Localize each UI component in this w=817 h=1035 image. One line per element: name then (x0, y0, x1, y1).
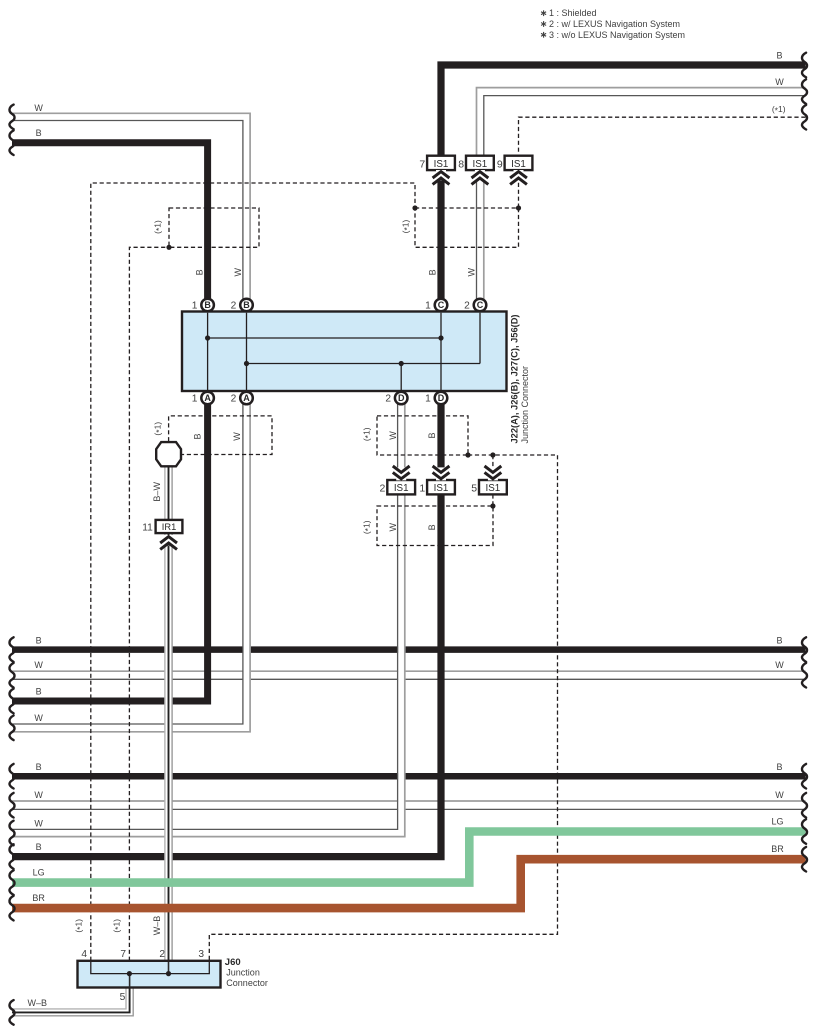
label W top-right (775, 77, 784, 87)
pin 1 A of junction connector (192, 392, 214, 405)
wire B junction pin 1D through IS1 pin 1 to left edge (12, 404, 441, 857)
pin 2 D of junction connector (385, 392, 407, 405)
svg-text:B: B (428, 269, 438, 275)
svg-text:B: B (427, 524, 437, 530)
arrow into IS1 pin 2 (393, 466, 410, 480)
svg-text:2: 2 (231, 301, 237, 312)
label LG left (33, 868, 45, 878)
wire W bus row1 full-width (12, 671, 806, 679)
svg-text:B: B (776, 762, 782, 772)
svg-text:3: 3 (198, 949, 204, 960)
svg-text:B: B (204, 300, 211, 310)
node J60 pin 2 junction (166, 971, 171, 976)
wire W junction pin 2A to left edge (12, 404, 250, 732)
svg-text:W: W (775, 77, 784, 87)
label W wire pin 2C (467, 268, 477, 277)
svg-text:J22(A), J26(B), J27(C), J56(D): J22(A), J26(B), J27(C), J56(D) (510, 315, 520, 444)
svg-text:W: W (467, 268, 477, 277)
label W wire pin 2D (388, 431, 398, 440)
label LG right (771, 816, 783, 826)
svg-text:4: 4 (81, 949, 87, 960)
label B wire pin 1B (194, 269, 204, 275)
label (*1) J60 pin 7 (112, 919, 124, 933)
svg-text:B: B (36, 128, 42, 138)
svg-text:1: 1 (425, 394, 431, 405)
label W-B wire J60 pin 5 (28, 998, 48, 1008)
label B wire pin 1A (193, 433, 203, 439)
wire B top-right to IS1 pin 7 (441, 65, 806, 156)
svg-text:1: 1 (192, 301, 198, 312)
junction connector internal wire pin 2D up (400, 364, 402, 391)
wire W-B shield octagon to IR1 to J60 pin 2 (165, 466, 172, 974)
svg-text:11: 11 (142, 523, 153, 534)
junction connector J22(A) J26(B) J27(C) J56(D) box (182, 312, 507, 392)
wire W top-right to IS1 pin 8 (477, 88, 806, 156)
pin number 2 of J60 (159, 949, 165, 960)
svg-text:Junction: Junction (226, 968, 260, 978)
pin number 7 of J60 (120, 949, 126, 960)
label (*1) octagon box (152, 422, 164, 436)
label W lower-left (34, 818, 43, 828)
svg-text:B: B (36, 842, 42, 852)
junction connector J60 box (78, 961, 221, 988)
pin number 3 of J60 (198, 949, 204, 960)
shield dashed box (*1) right of junction connector (415, 208, 519, 247)
svg-text:D: D (438, 393, 445, 403)
svg-text:B: B (194, 269, 204, 275)
node J60 pin 7 junction (127, 971, 132, 976)
node shield dashed left (412, 205, 417, 210)
svg-text:A: A (243, 393, 250, 403)
label W bus row1 right (775, 660, 784, 670)
svg-text:B: B (193, 433, 203, 439)
label (*1) shield box right (400, 219, 412, 233)
shield dashed box (*1) above IS1 row D (377, 416, 468, 455)
pin 1 B of junction connector (192, 299, 214, 312)
svg-text:Connector: Connector (226, 978, 268, 988)
connector IR1 pin 11 (142, 520, 182, 534)
svg-text:(*1): (*1) (361, 520, 373, 534)
shield dashed box (*1) left of junction connector (169, 208, 259, 247)
svg-text:B–W: B–W (152, 482, 162, 502)
svg-text:W: W (232, 432, 242, 441)
svg-text:IR1: IR1 (162, 522, 176, 532)
label B mid-left (36, 687, 42, 697)
arrow into IS1 pin 7 (433, 170, 450, 184)
label W mid-left (34, 713, 43, 723)
shield dashed line left inner (J60 pin 7 up to node A1) (129, 247, 169, 961)
label BR left (32, 893, 45, 903)
svg-text:7: 7 (120, 949, 126, 960)
label B-W wire IR1 (152, 482, 162, 502)
svg-text:IS1: IS1 (434, 483, 449, 494)
svg-text:3 : w/o LEXUS Navigation Syste: 3 : w/o LEXUS Navigation System (549, 30, 685, 40)
svg-text:B: B (36, 635, 42, 645)
svg-text:(*1): (*1) (74, 919, 86, 933)
arrow into IS1 pin 8 (472, 170, 489, 184)
wire BR right edge to left edge (12, 859, 806, 908)
shield dashed wire IS1 pin 9 down to node (518, 169, 520, 208)
node shield dashed right (516, 205, 521, 210)
label W wire pin 2B (233, 268, 243, 277)
shield dashed line right (node to J60 pin 3) (209, 455, 557, 961)
svg-text:LG: LG (33, 868, 45, 878)
wire W from IS1 pin 8 to junction pin 2C (477, 169, 484, 302)
node shield dashed at box D corner (465, 452, 470, 457)
svg-text:1 : Shielded: 1 : Shielded (549, 8, 597, 18)
node shield dashed lower-left (166, 245, 171, 250)
svg-text:9: 9 (497, 158, 503, 170)
svg-text:IS1: IS1 (486, 483, 501, 494)
label (*1) shield box left (152, 220, 164, 234)
label W bus row2 right (775, 790, 784, 800)
wire B junction pin 1A to left edge (12, 404, 208, 701)
label W bus row1 left (34, 660, 43, 670)
junction connector J60 pin 5 stub (129, 974, 131, 988)
svg-text:W: W (388, 523, 398, 532)
svg-text:(*1): (*1) (152, 422, 164, 436)
svg-text:2: 2 (385, 394, 391, 405)
junction connector internal bus 2 (244, 361, 480, 366)
svg-text:W: W (388, 431, 398, 440)
label B lower-left (36, 842, 42, 852)
svg-text:W: W (233, 268, 243, 277)
svg-text:B: B (776, 635, 782, 645)
pin 2 B of junction connector (231, 299, 253, 312)
pin number 4 of J60 (81, 949, 87, 960)
pin 1 D of junction connector (425, 392, 447, 405)
svg-text:1: 1 (192, 394, 198, 405)
svg-text:2: 2 (380, 483, 386, 495)
svg-text:2: 2 (159, 949, 165, 960)
svg-text:B: B (36, 687, 42, 697)
shield dashed box (*1) around octagon wires (169, 416, 272, 455)
svg-text:8: 8 (458, 158, 464, 170)
connector IS1 pin 9 (497, 156, 533, 171)
label B bus row1 left (36, 635, 42, 645)
shield dashed line left outer (J60 pin 4 up and across top) (91, 183, 415, 961)
node shield dashed at lower box corner (490, 503, 495, 508)
arrow into IS1 pin 5 (485, 466, 502, 480)
arrow into IR1 pin 11 (160, 535, 177, 549)
svg-text:7: 7 (419, 158, 425, 170)
svg-text:(*1): (*1) (772, 104, 786, 116)
connector IS1 pin 5 (471, 480, 507, 495)
svg-text:2: 2 (464, 301, 470, 312)
svg-text:W: W (34, 818, 43, 828)
svg-text:5: 5 (120, 992, 126, 1003)
label (*1) box D upper (361, 427, 373, 441)
svg-text:W–B: W–B (152, 916, 162, 936)
wire LG right edge to left edge (12, 832, 806, 883)
shield dashed branch to IS1 pin 5 (492, 455, 494, 480)
svg-text:2 : w/ LEXUS Navigation System: 2 : w/ LEXUS Navigation System (549, 19, 680, 29)
svg-text:BR: BR (32, 893, 45, 903)
svg-text:IS1: IS1 (473, 159, 488, 170)
node shield dashed branch IS1 5 (490, 452, 495, 457)
label B top-left (36, 128, 42, 138)
svg-text:B: B (36, 762, 42, 772)
arrow into IS1 pin 1 (433, 466, 450, 480)
arrow into IS1 pin 9 (510, 170, 527, 184)
svg-text:1: 1 (419, 483, 425, 495)
pin 2 A of junction connector (231, 392, 253, 405)
label W top-left (34, 103, 43, 113)
label W bus row2 left (34, 790, 43, 800)
svg-text:B: B (243, 300, 250, 310)
junction connector internal wire pin 2B to 2A (246, 313, 248, 391)
svg-text:5: 5 (471, 483, 477, 495)
label B wire pin 1C (428, 269, 438, 275)
connector IS1 pin 7 (419, 156, 455, 171)
pin 2 C of junction connector (464, 299, 486, 312)
wire W bus row2 full-width (12, 801, 806, 809)
wire W junction pin 2D through IS1 pin 2 to left edge (12, 404, 405, 837)
svg-text:W: W (34, 790, 43, 800)
svg-text:W: W (34, 713, 43, 723)
junction connector J60 pin 2 stub (168, 962, 170, 974)
svg-text:BR: BR (771, 844, 784, 854)
svg-text:IS1: IS1 (394, 483, 409, 494)
junction connector J60 internal bus (91, 962, 210, 974)
label W-B wire J60 pin 2 (152, 916, 162, 936)
label B bus row1 right (776, 635, 782, 645)
label W wire pin 2A (232, 432, 242, 441)
wire B bus row2 full-width (12, 773, 806, 780)
svg-text:D: D (398, 393, 405, 403)
shield dashed box (*1) below IS1 row D (377, 506, 493, 546)
svg-text:J60: J60 (225, 957, 241, 968)
svg-text:W: W (775, 790, 784, 800)
svg-text:W: W (34, 660, 43, 670)
label B top-right (776, 50, 782, 60)
junction connector internal bus 1 (205, 335, 444, 340)
pin 1 C of junction connector (425, 299, 447, 312)
svg-text:(*1): (*1) (152, 220, 164, 234)
svg-text:IS1: IS1 (511, 159, 526, 170)
wire B bus row1 full-width (12, 646, 806, 653)
wire W-B left edge to J60 pin 5 (12, 975, 133, 1016)
label (*1) top-right (772, 104, 786, 116)
label W wire below IS1 2 (388, 523, 398, 532)
svg-text:A: A (204, 393, 211, 403)
pin number 5 of J60 (120, 992, 126, 1003)
svg-text:W: W (775, 660, 784, 670)
svg-text:(*1): (*1) (112, 919, 124, 933)
junction connector internal wire pin 1B to 1A (207, 313, 209, 391)
junction connector J60 label (225, 957, 268, 988)
label BR right (771, 844, 784, 854)
svg-text:C: C (438, 300, 445, 310)
svg-text:B: B (776, 50, 782, 60)
svg-text:W–B: W–B (28, 998, 48, 1008)
junction connector internal wire pin 2C down (479, 313, 481, 364)
junction connector internal wire pin 1C to 1D (440, 313, 442, 391)
svg-text:1: 1 (425, 301, 431, 312)
label B bus row2 right (776, 762, 782, 772)
svg-text:B: B (427, 432, 437, 438)
svg-text:2: 2 (231, 394, 237, 405)
shield octagon (156, 442, 181, 466)
label (*1) J60 pin 4 (74, 919, 86, 933)
wire B top-left to junction pin 1B (12, 143, 208, 302)
connector IS1 pin 8 (458, 156, 494, 171)
label (*1) box D lower (361, 520, 373, 534)
label B wire below IS1 1 (427, 524, 437, 530)
connector IS1 pin 1 (419, 480, 455, 495)
shield dashed wire top-right to IS1 pin 9 (519, 117, 806, 156)
svg-text:(*1): (*1) (400, 219, 412, 233)
svg-text:IS1: IS1 (434, 159, 449, 170)
label B bus row2 left (36, 762, 42, 772)
svg-text:W: W (34, 103, 43, 113)
shield dashed IS1 pin 5 to lower box (492, 494, 494, 506)
svg-text:LG: LG (771, 816, 783, 826)
svg-text:(*1): (*1) (361, 427, 373, 441)
svg-text:C: C (477, 300, 484, 310)
label B wire pin 1D (427, 432, 437, 438)
note legend (541, 8, 685, 40)
wire W top-left to junction pin 2B (12, 113, 250, 302)
junction connector label (510, 315, 530, 444)
connector IS1 pin 2 (380, 480, 416, 495)
svg-text:Junction Connector: Junction Connector (520, 366, 530, 444)
wire B from IS1 pin 7 to junction pin 1C (437, 169, 444, 302)
